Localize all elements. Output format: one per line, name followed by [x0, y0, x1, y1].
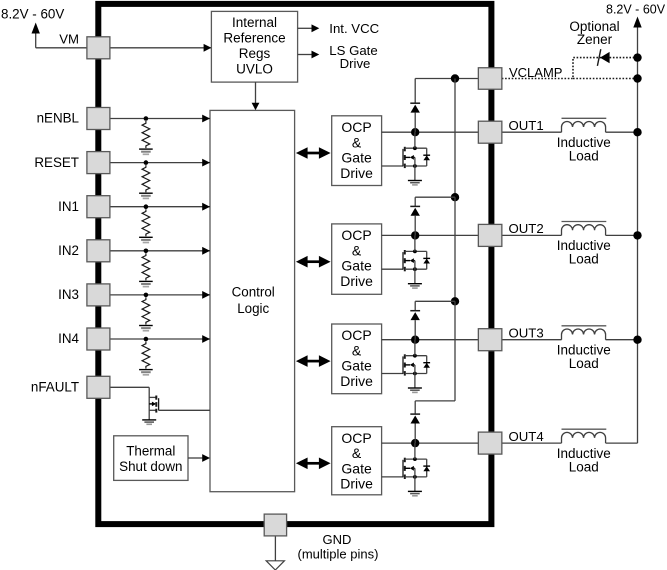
svg-text:OUT2: OUT2: [509, 221, 544, 236]
svg-text:(multiple pins): (multiple pins): [298, 546, 379, 561]
svg-text:Drive: Drive: [340, 273, 373, 289]
svg-text:&: &: [352, 445, 362, 461]
svg-text:&: &: [352, 242, 362, 258]
svg-text:OCP: OCP: [341, 430, 371, 446]
svg-text:VM: VM: [59, 32, 79, 47]
svg-text:Drive: Drive: [340, 56, 371, 71]
svg-text:Load: Load: [569, 459, 599, 474]
svg-text:Gate: Gate: [341, 150, 372, 166]
svg-text:IN1: IN1: [58, 199, 79, 214]
svg-text:Gate: Gate: [341, 358, 372, 374]
svg-text:OUT3: OUT3: [509, 325, 544, 340]
svg-text:8.2V - 60V: 8.2V - 60V: [606, 3, 666, 17]
svg-text:Drive: Drive: [340, 476, 373, 492]
svg-text:VCLAMP: VCLAMP: [509, 65, 562, 80]
svg-text:IN3: IN3: [58, 287, 79, 302]
svg-text:OUT1: OUT1: [509, 118, 544, 133]
svg-text:UVLO: UVLO: [236, 61, 273, 76]
svg-text:nENBL: nENBL: [37, 111, 79, 126]
svg-text:IN2: IN2: [58, 243, 79, 258]
svg-text:OCP: OCP: [341, 227, 371, 243]
svg-text:Zener: Zener: [577, 32, 613, 47]
svg-text:Internal: Internal: [232, 15, 277, 30]
svg-text:Reference: Reference: [223, 30, 285, 45]
svg-text:&: &: [352, 342, 362, 358]
svg-text:Gate: Gate: [341, 258, 372, 274]
svg-text:GND: GND: [323, 532, 352, 547]
svg-text:Int. VCC: Int. VCC: [329, 21, 379, 36]
svg-text:OCP: OCP: [341, 327, 371, 343]
svg-text:Shut down: Shut down: [119, 459, 182, 474]
svg-text:OCP: OCP: [341, 119, 371, 135]
svg-text:Logic: Logic: [237, 301, 269, 316]
svg-text:Thermal: Thermal: [126, 443, 175, 458]
svg-text:&: &: [352, 134, 362, 150]
svg-text:RESET: RESET: [34, 155, 79, 170]
svg-text:OUT4: OUT4: [509, 429, 544, 444]
svg-text:Load: Load: [569, 148, 599, 163]
svg-text:Load: Load: [569, 356, 599, 371]
svg-text:Load: Load: [569, 252, 599, 267]
svg-text:Regs: Regs: [239, 46, 271, 61]
svg-text:8.2V - 60V: 8.2V - 60V: [1, 7, 64, 22]
svg-text:Control: Control: [232, 284, 275, 299]
svg-text:Gate: Gate: [341, 460, 372, 476]
svg-text:IN4: IN4: [58, 331, 79, 346]
svg-text:nFAULT: nFAULT: [31, 380, 79, 395]
svg-text:Drive: Drive: [340, 165, 373, 181]
svg-text:Drive: Drive: [340, 373, 373, 389]
